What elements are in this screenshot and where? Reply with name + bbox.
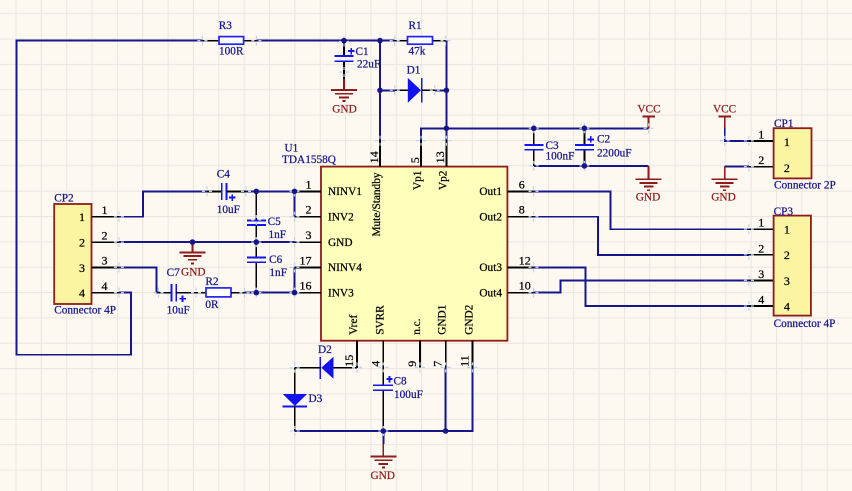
svg-text:Out2: Out2 bbox=[479, 212, 502, 224]
wire bottom rail bbox=[295, 367, 473, 431]
U1 pin 13 Vp2 bbox=[445, 141, 447, 167]
svg-text:1nF: 1nF bbox=[269, 229, 287, 241]
svg-text:C2: C2 bbox=[597, 134, 611, 146]
junction C5/C6 on GND wire bbox=[253, 239, 259, 245]
svg-text:4: 4 bbox=[79, 286, 85, 300]
svg-text:4: 4 bbox=[758, 293, 764, 307]
wire Out4 to CP3 pin3 bbox=[534, 280, 749, 292]
wire Vp rail bbox=[421, 128, 649, 140]
svg-text:Mute/Standby: Mute/Standby bbox=[371, 172, 383, 236]
svg-text:VCC: VCC bbox=[637, 104, 660, 116]
svg-text:22uF: 22uF bbox=[357, 59, 380, 71]
ground bottom bbox=[370, 431, 396, 482]
svg-text:1: 1 bbox=[102, 203, 108, 217]
U1 pin 6 Out1 bbox=[507, 190, 533, 192]
junction pin1-pin2 stub bbox=[292, 189, 298, 195]
junction D1 cathode / R1 column bbox=[444, 88, 450, 94]
svg-text:5: 5 bbox=[408, 157, 422, 163]
junction C8/GND on bottom rail bbox=[381, 428, 387, 434]
capacitor C3 bbox=[524, 128, 574, 166]
junction C6 bottom on INV3 wire bbox=[253, 290, 259, 296]
svg-text:2: 2 bbox=[102, 228, 108, 242]
wire top rail R3 right to R1 left bbox=[256, 40, 394, 42]
svg-text:VCC: VCC bbox=[713, 104, 736, 116]
CP3 pin 1 bbox=[749, 228, 774, 230]
resistor R1 bbox=[395, 20, 446, 57]
ground under CP1 pin2 bbox=[711, 167, 737, 204]
resistor R3 bbox=[202, 20, 256, 57]
U1 pin 12 Out3 bbox=[507, 266, 533, 268]
wire Out2 to CP3 pin2 bbox=[534, 217, 749, 255]
junction Mute/Standby riser on rail bbox=[377, 38, 383, 44]
svg-text:C1: C1 bbox=[356, 46, 369, 58]
svg-text:Connector 4P: Connector 4P bbox=[774, 318, 836, 330]
svg-text:C4: C4 bbox=[217, 168, 231, 180]
IC U1 body bbox=[282, 142, 507, 340]
wire Out1 to CP3 pin1 bbox=[534, 191, 749, 229]
CP2 pin 1 bbox=[92, 216, 119, 218]
U1 pin 2 INV2 bbox=[295, 216, 322, 218]
svg-text:1: 1 bbox=[784, 135, 790, 149]
svg-text:D1: D1 bbox=[407, 65, 421, 77]
junction C5 top on NINV1 wire bbox=[253, 189, 259, 195]
svg-text:8: 8 bbox=[519, 203, 525, 217]
svg-text:U1: U1 bbox=[285, 142, 299, 154]
svg-text:GND2: GND2 bbox=[464, 304, 476, 334]
svg-text:1: 1 bbox=[758, 127, 764, 141]
junction C2 on Vp rail bbox=[582, 126, 588, 132]
svg-text:1: 1 bbox=[79, 210, 85, 224]
svg-text:100nF: 100nF bbox=[546, 151, 575, 163]
wire input loop from CP2 pin4 to top rail bbox=[17, 41, 203, 355]
diode D3 bbox=[283, 368, 323, 431]
ground under C2/C3 rail bbox=[636, 166, 662, 204]
svg-text:NINV1: NINV1 bbox=[328, 186, 362, 198]
svg-text:C7: C7 bbox=[167, 267, 181, 279]
svg-text:3: 3 bbox=[784, 274, 790, 288]
svg-text:INV2: INV2 bbox=[328, 212, 354, 224]
U1 pin 5 Vp1 bbox=[420, 141, 422, 167]
svg-text:2: 2 bbox=[758, 241, 764, 255]
diode D2 bbox=[295, 344, 357, 379]
svg-text:GND: GND bbox=[328, 237, 352, 249]
svg-text:2: 2 bbox=[79, 235, 85, 249]
U1 pin 3 GND bbox=[295, 241, 322, 243]
svg-text:3: 3 bbox=[79, 261, 85, 275]
capacitor C5 bbox=[247, 192, 286, 242]
svg-text:Out4: Out4 bbox=[479, 287, 502, 299]
svg-text:R3: R3 bbox=[219, 20, 233, 32]
svg-text:R2: R2 bbox=[205, 276, 219, 288]
svg-text:CP1: CP1 bbox=[774, 118, 793, 130]
wire D1 right to R1/Vp column bbox=[435, 89, 447, 91]
pin hotspot markers bbox=[114, 36, 754, 436]
ground tap on pin2 row bbox=[180, 242, 206, 278]
capacitor C6 bbox=[247, 242, 287, 293]
capacitor C2 bbox=[575, 128, 632, 166]
wire pin15 elbow bbox=[356, 341, 358, 368]
svg-text:0R: 0R bbox=[205, 299, 219, 311]
junction ground tap on GND wire bbox=[190, 239, 196, 245]
CP2 pin 4 bbox=[92, 292, 119, 294]
junction D1 anode tap bbox=[377, 88, 383, 94]
U1 pin 8 Out2 bbox=[507, 216, 533, 218]
svg-text:2200uF: 2200uF bbox=[597, 147, 632, 159]
svg-text:11: 11 bbox=[458, 355, 472, 367]
U1 pin 15 Vref bbox=[356, 341, 358, 368]
wire VCC to CP1 pin1 bbox=[725, 128, 749, 141]
svg-text:GND1: GND1 bbox=[437, 305, 449, 335]
wire C3/C2 bottom rail bbox=[534, 165, 649, 167]
svg-text:1nF: 1nF bbox=[269, 267, 287, 279]
junction Vp2 column on Vp rail bbox=[444, 126, 450, 132]
resistor R2 bbox=[205, 276, 244, 311]
svg-text:10uF: 10uF bbox=[167, 305, 190, 317]
svg-text:12: 12 bbox=[519, 253, 531, 267]
U1 pin 10 Out4 bbox=[507, 292, 533, 294]
svg-text:C8: C8 bbox=[394, 376, 408, 388]
wire Out3 to CP3 pin4 bbox=[534, 267, 749, 306]
svg-text:C6: C6 bbox=[269, 254, 283, 266]
svg-text:GND: GND bbox=[636, 192, 660, 204]
U1 pin 17 NINV4 bbox=[295, 266, 322, 268]
svg-text:2: 2 bbox=[784, 248, 790, 262]
svg-text:13: 13 bbox=[433, 151, 447, 163]
svg-text:1: 1 bbox=[758, 216, 764, 230]
svg-text:INV3: INV3 bbox=[328, 287, 354, 299]
junction C1 top on R3-R1 rail bbox=[341, 38, 347, 44]
wire Vp column bbox=[445, 41, 447, 141]
svg-text:GND: GND bbox=[711, 192, 735, 204]
connector CP3 bbox=[749, 206, 836, 330]
svg-text:2: 2 bbox=[784, 161, 790, 175]
capacitor C1 bbox=[335, 42, 381, 80]
svg-text:NINV4: NINV4 bbox=[328, 262, 362, 274]
CP3 pin 3 bbox=[749, 279, 774, 281]
U1 pin 11 GND2 bbox=[472, 341, 474, 368]
svg-text:GND: GND bbox=[181, 267, 205, 279]
svg-text:47k: 47k bbox=[409, 45, 426, 57]
connector CP1 bbox=[749, 118, 836, 192]
svg-text:16: 16 bbox=[300, 279, 312, 293]
connector CP2 bbox=[54, 193, 119, 317]
svg-text:14: 14 bbox=[367, 151, 381, 163]
svg-text:4: 4 bbox=[368, 361, 382, 367]
U1 pin 4 SVRR bbox=[382, 341, 384, 368]
svg-text:Vp2: Vp2 bbox=[437, 170, 449, 190]
svg-text:Vref: Vref bbox=[348, 315, 360, 335]
svg-text:100uF: 100uF bbox=[394, 389, 423, 401]
wire CP2 pin3 to C7 bbox=[119, 267, 160, 292]
junction C2 bottom on ground rail bbox=[582, 163, 588, 169]
svg-text:10: 10 bbox=[519, 279, 531, 293]
svg-text:6: 6 bbox=[519, 177, 525, 191]
U1 pin 1 NINV1 bbox=[295, 190, 322, 192]
capacitor C4 bbox=[207, 168, 246, 216]
wire pin7 drop bbox=[445, 367, 447, 431]
svg-text:n.c.: n.c. bbox=[411, 318, 423, 334]
wire mute/standby riser bbox=[379, 41, 381, 141]
CP3 pin 4 bbox=[749, 305, 774, 307]
U1 pin 7 GND1 bbox=[445, 341, 447, 368]
U1 pin 16 INV3 bbox=[295, 292, 322, 294]
junction GND1 drop on bottom rail bbox=[443, 428, 449, 434]
CP2 pin 2 bbox=[92, 241, 119, 243]
junction pin16-pin17 stub bbox=[292, 290, 298, 296]
wire CP1 pin2 to ground bbox=[725, 166, 749, 168]
svg-text:3: 3 bbox=[306, 228, 312, 242]
U1 pin 9 n.c. bbox=[419, 341, 421, 368]
svg-text:1: 1 bbox=[306, 177, 312, 191]
svg-text:4: 4 bbox=[784, 299, 790, 313]
junction C3 on Vp rail bbox=[531, 126, 537, 132]
svg-text:D3: D3 bbox=[309, 393, 323, 405]
svg-text:9: 9 bbox=[405, 361, 419, 367]
svg-text:4: 4 bbox=[102, 279, 108, 293]
svg-text:C5: C5 bbox=[268, 216, 282, 228]
U1 pin 14 Mute/Standby bbox=[379, 141, 381, 167]
svg-text:17: 17 bbox=[300, 253, 312, 267]
svg-text:2: 2 bbox=[306, 203, 312, 217]
CP1 pin 2 bbox=[749, 166, 774, 168]
wire CP2 pin1 to C4 bbox=[119, 191, 207, 216]
CP3 pin 2 bbox=[749, 254, 774, 256]
svg-text:10uF: 10uF bbox=[217, 204, 240, 216]
svg-text:Vp1: Vp1 bbox=[412, 171, 424, 190]
svg-text:Connector 4P: Connector 4P bbox=[54, 304, 116, 316]
svg-text:GND: GND bbox=[370, 470, 394, 482]
CP2 pin 3 bbox=[92, 266, 119, 268]
wire C4 to IC pin1 with stub to pin2 bbox=[246, 190, 295, 192]
power VCC at CP1 bbox=[713, 104, 736, 128]
svg-text:Connector 2P: Connector 2P bbox=[774, 179, 836, 191]
wire CP2 pin2 row to IC GND pin bbox=[119, 241, 295, 243]
capacitor C8 bbox=[373, 367, 423, 430]
svg-text:Out3: Out3 bbox=[479, 262, 502, 274]
svg-text:3: 3 bbox=[758, 267, 764, 281]
svg-text:CP2: CP2 bbox=[54, 193, 74, 205]
svg-text:3: 3 bbox=[102, 254, 108, 268]
svg-text:GND: GND bbox=[332, 104, 356, 116]
svg-text:TDA1558Q: TDA1558Q bbox=[282, 154, 336, 166]
diode D1 bbox=[395, 65, 435, 103]
svg-text:2: 2 bbox=[758, 153, 764, 167]
svg-text:Out1: Out1 bbox=[479, 186, 502, 198]
power VCC above Vp rail bbox=[637, 104, 660, 129]
svg-text:15: 15 bbox=[342, 355, 356, 367]
CP1 pin 1 bbox=[749, 140, 774, 142]
svg-text:100R: 100R bbox=[219, 45, 244, 57]
ground under C1 bbox=[331, 79, 357, 115]
svg-text:R1: R1 bbox=[409, 20, 422, 32]
svg-text:SVRR: SVRR bbox=[374, 305, 386, 335]
wire D1 left tap bbox=[380, 89, 395, 91]
svg-text:CP3: CP3 bbox=[774, 206, 794, 218]
svg-text:7: 7 bbox=[431, 361, 445, 367]
wire R2 to IC pin16 with stub to pin17 bbox=[245, 292, 295, 294]
svg-text:1: 1 bbox=[784, 223, 790, 237]
svg-text:D2: D2 bbox=[318, 344, 332, 356]
capacitor C7 bbox=[159, 267, 207, 317]
